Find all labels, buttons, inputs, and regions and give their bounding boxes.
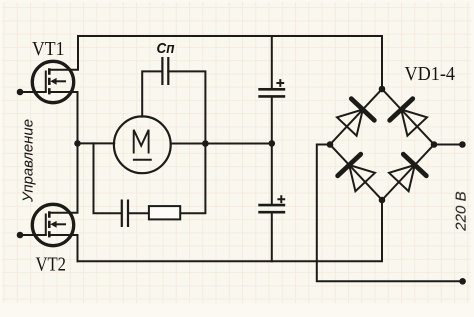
transistor VT2 xyxy=(32,204,73,245)
svg-text:220 В: 220 В xyxy=(453,191,470,232)
wire VT2 source to bottom rail xyxy=(49,235,77,261)
wire bridge arm bottom-left xyxy=(330,145,382,201)
wire node A to VT2 drain xyxy=(49,143,77,212)
wire VT1 gate lead xyxy=(20,91,46,93)
wire bottom rail xyxy=(78,200,383,261)
svg-text:Сп: Сп xyxy=(156,40,174,57)
capacitor Cp xyxy=(162,57,168,85)
junction bridge top xyxy=(379,86,386,93)
filter capacitor C2 xyxy=(258,205,285,212)
junction node A xyxy=(74,140,81,147)
filter capacitor C1 xyxy=(258,89,285,96)
svg-text:VT2: VT2 xyxy=(35,253,66,275)
wire top rail xyxy=(78,35,382,37)
junction node B xyxy=(202,140,209,147)
terminal AC right xyxy=(459,141,466,148)
wire node A to motor left xyxy=(78,142,115,144)
wire VT2 gate lead xyxy=(20,234,46,236)
terminal VT1 gate xyxy=(17,89,24,96)
diode VD2 (right-top arm) xyxy=(390,99,427,136)
svg-text:Управление: Управление xyxy=(20,119,37,203)
junction bridge left xyxy=(327,141,334,148)
snubber capacitor xyxy=(122,200,128,228)
wire snubber branch from motor-left wire xyxy=(94,143,122,213)
wire filter column bottom xyxy=(271,214,273,261)
wire bridge arm bottom-right xyxy=(382,145,434,201)
plus sign C1 xyxy=(276,79,284,87)
wire bridge arm top-right xyxy=(382,89,434,145)
diode VD4 (bottom-right arm) xyxy=(389,154,426,191)
svg-text:VD1-4: VD1-4 xyxy=(404,63,455,85)
wire bridge arm top-left xyxy=(330,89,382,145)
plus sign C2 xyxy=(277,195,285,203)
wire filter column between caps xyxy=(271,98,273,205)
wire bridge right to AC terminal xyxy=(434,144,462,146)
svg-text:VT1: VT1 xyxy=(32,38,65,60)
wire motor top to Cp loop xyxy=(142,71,162,116)
wire bridge top feed xyxy=(381,36,383,89)
diode VD1 (left-top arm) xyxy=(337,99,374,136)
wire motor right to node C xyxy=(171,143,272,145)
wire filter column top xyxy=(271,36,273,88)
wire VT1 drain to top rail xyxy=(49,36,78,70)
junction bridge right xyxy=(431,141,438,148)
transistor VT1 xyxy=(32,61,73,102)
terminal VT2 gate xyxy=(17,232,24,239)
motor M xyxy=(114,116,171,173)
wire VT1 source down to node A xyxy=(49,92,77,143)
wire snubber cap to resistor xyxy=(129,212,149,214)
wire bridge left to AC bottom terminal xyxy=(317,145,463,282)
resistor xyxy=(149,206,180,219)
junction bridge bottom xyxy=(379,197,386,204)
junction node C xyxy=(269,140,276,147)
diode VD3 (bottom-left arm) xyxy=(338,154,375,191)
wire Cp right side down to node B xyxy=(168,71,205,213)
terminal AC bottom xyxy=(459,278,466,285)
